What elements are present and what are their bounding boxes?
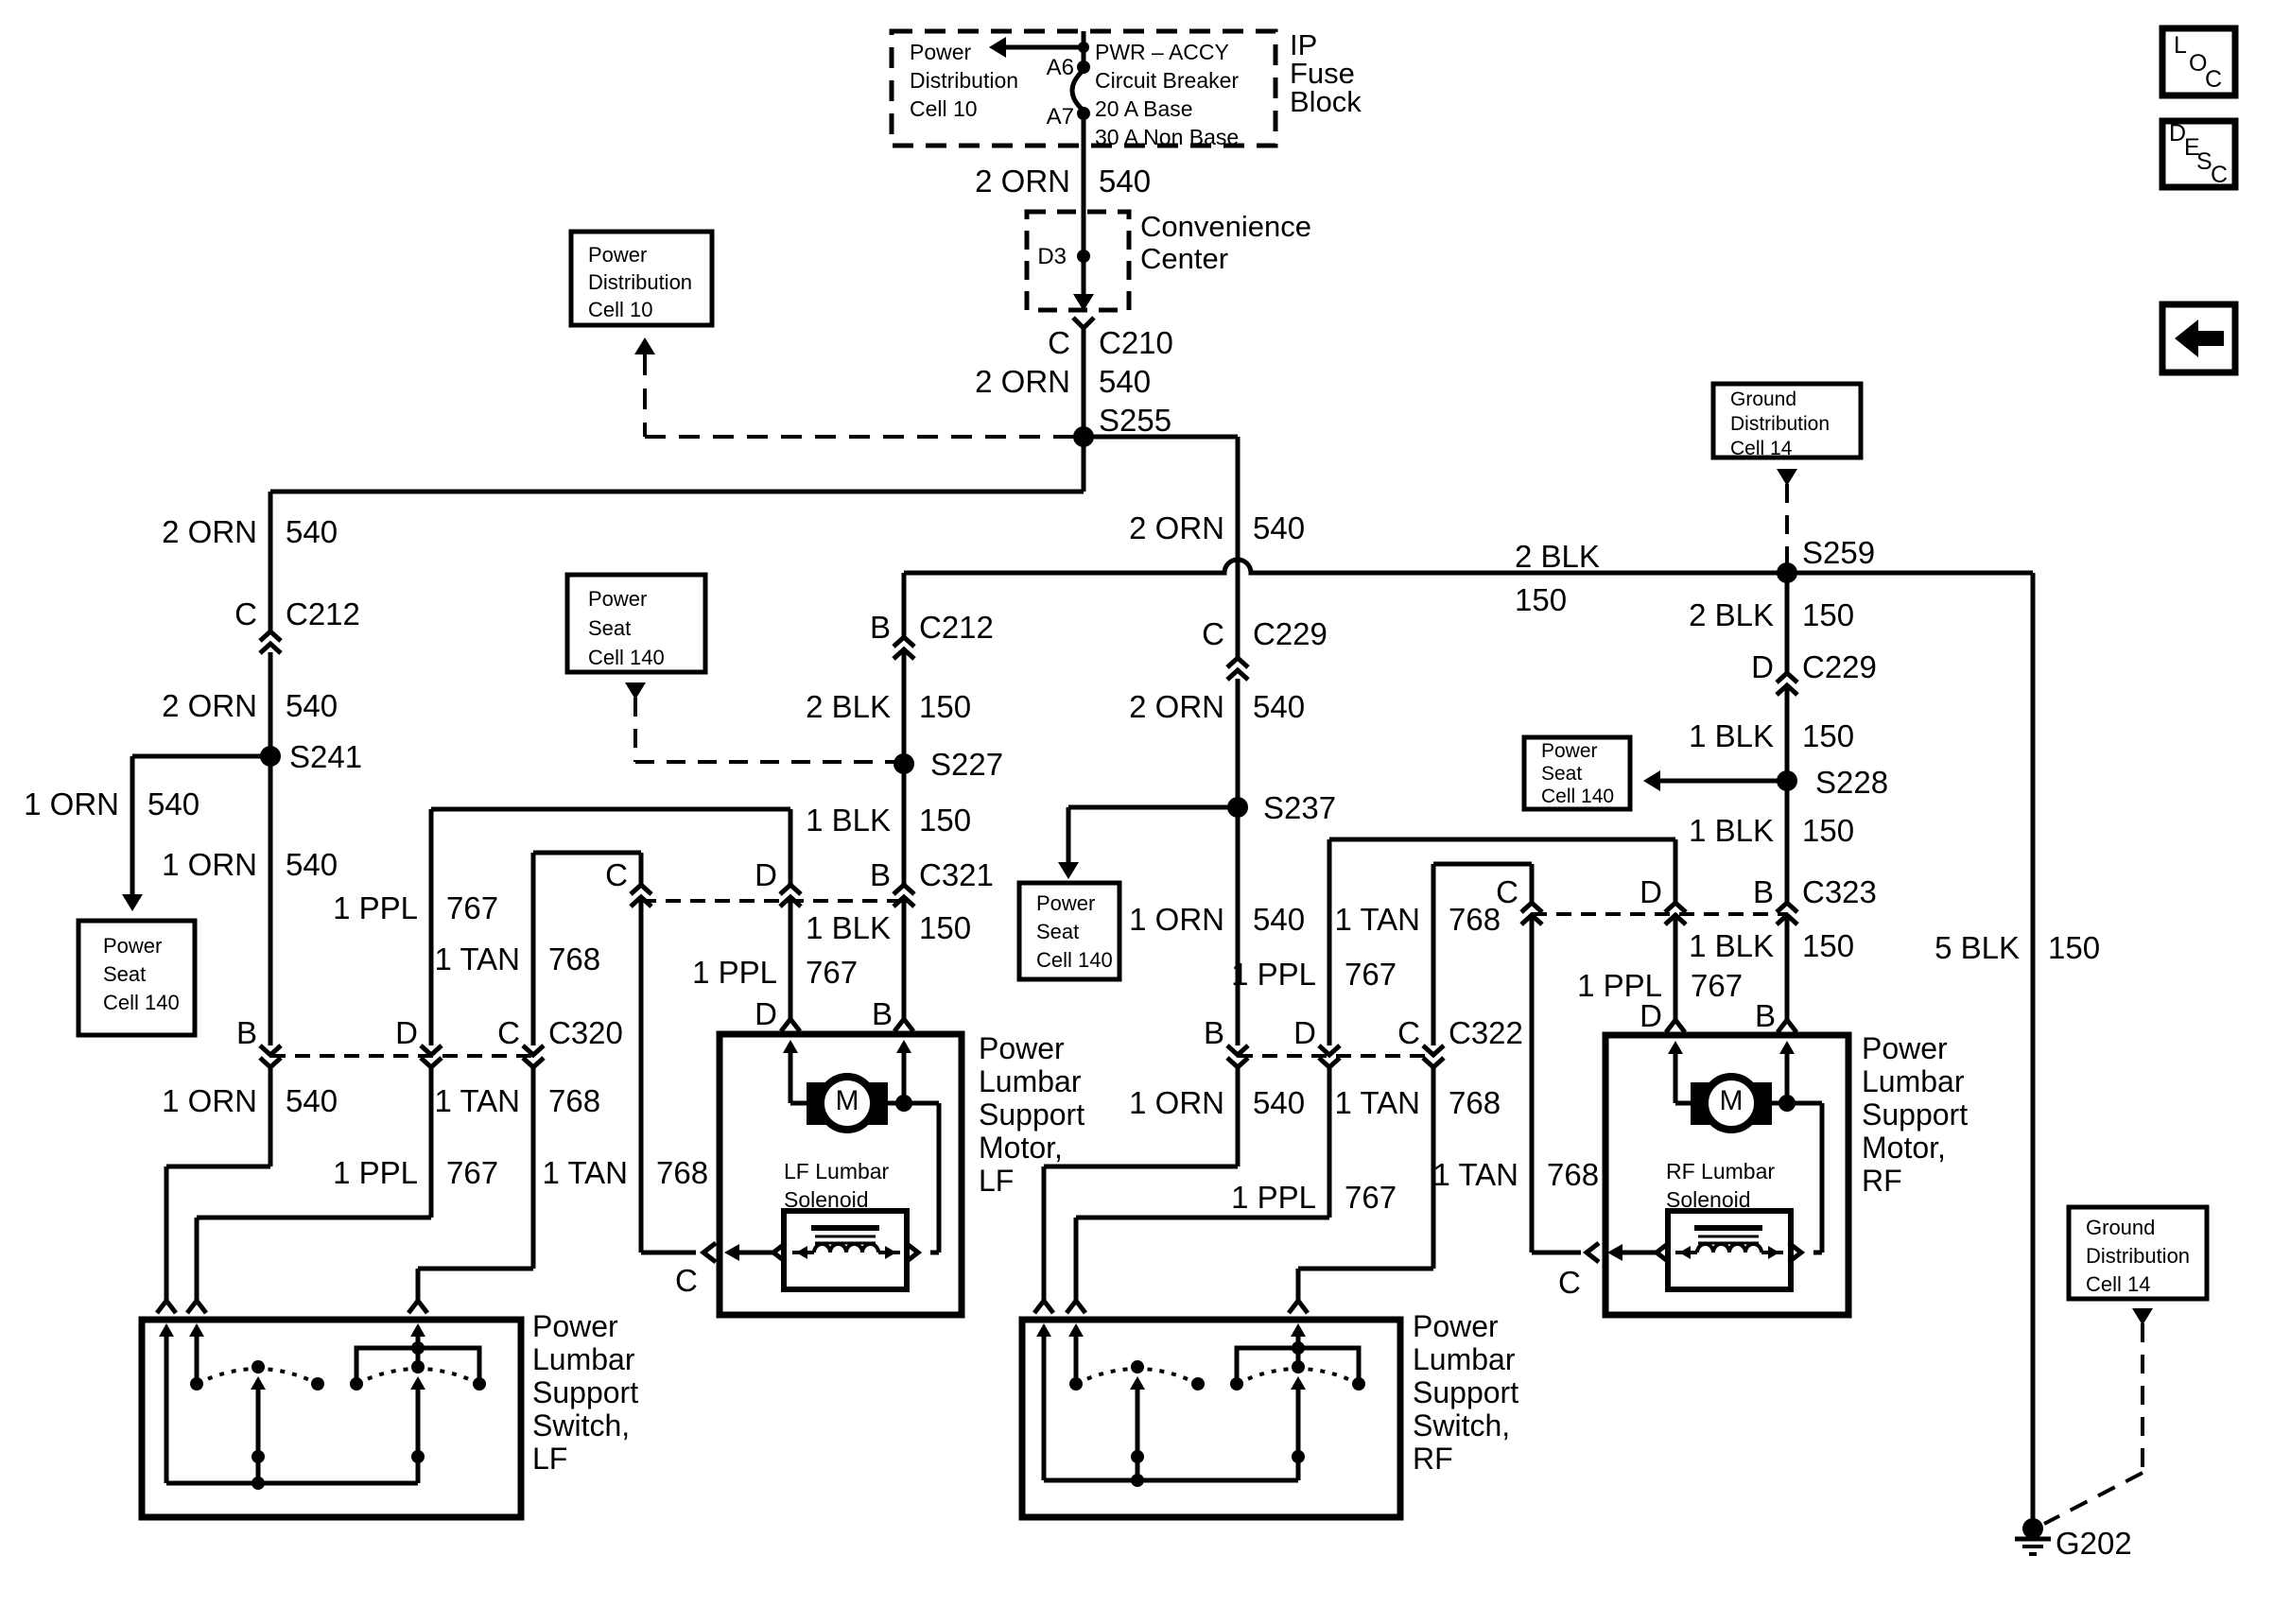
switch pin 1 internal	[159, 1323, 174, 1337]
svg-text:Lumbar: Lumbar	[979, 1064, 1082, 1098]
motor pin B fork	[894, 1019, 913, 1031]
svg-text:150: 150	[1515, 582, 1567, 617]
switch pin 2 internal	[189, 1323, 204, 1337]
connector C323 pin C	[1521, 903, 1542, 912]
svg-text:RF: RF	[1413, 1442, 1453, 1476]
splice S241	[260, 746, 281, 767]
svg-text:Cell 10: Cell 10	[588, 298, 652, 321]
wire 2 ORN 540 down to C229	[1236, 437, 1241, 658]
svg-text:Power: Power	[910, 40, 972, 64]
svg-text:540: 540	[1099, 164, 1151, 199]
svg-text:150: 150	[1802, 813, 1854, 848]
svg-text:Cell 14: Cell 14	[2086, 1272, 2150, 1296]
arrowhead left	[989, 37, 1006, 58]
svg-text:LF: LF	[979, 1164, 1014, 1198]
svg-text:1 ORN: 1 ORN	[24, 786, 119, 821]
svg-text:A7: A7	[1047, 104, 1074, 130]
svg-text:Power: Power	[588, 587, 647, 611]
svg-text:2 BLK: 2 BLK	[1689, 597, 1774, 632]
svg-text:PWR – ACCY: PWR – ACCY	[1095, 40, 1229, 64]
svg-text:Distribution: Distribution	[910, 68, 1018, 93]
wire S228 arrow to ref box	[1649, 779, 1783, 784]
wire 2 ORN 540 from breaker	[1082, 113, 1086, 212]
svg-text:D3: D3	[1037, 244, 1067, 269]
ground distribution cell 14 ref box (bottom)	[2069, 1207, 2207, 1299]
svg-text:C321: C321	[919, 857, 994, 892]
svg-text:B: B	[236, 1015, 257, 1050]
svg-text:Circuit Breaker: Circuit Breaker	[1095, 68, 1239, 93]
LOC icon	[2162, 28, 2235, 95]
wire 2 ORN down to C212	[269, 492, 273, 631]
switch pin 3 internal	[410, 1323, 425, 1337]
LF lumbar support motor box	[720, 1034, 962, 1315]
RF right wiper arrow	[1291, 1376, 1306, 1390]
wire S255 down	[1082, 437, 1086, 492]
connector C322 pin B	[1227, 1045, 1248, 1055]
svg-text:1 BLK: 1 BLK	[1689, 718, 1774, 753]
svg-text:B: B	[872, 996, 893, 1031]
wire jog left	[1044, 1165, 1238, 1169]
RF switch common rail	[1044, 1478, 1298, 1483]
svg-text:Cell 10: Cell 10	[910, 96, 978, 121]
arrowhead	[1058, 862, 1079, 879]
connector C229 (pin D)	[1777, 673, 1797, 682]
ground G202	[2022, 1518, 2043, 1539]
svg-text:2 BLK: 2 BLK	[806, 689, 891, 724]
rail junction	[252, 1477, 265, 1490]
motor M symbol LF	[807, 1082, 829, 1125]
svg-text:M: M	[1720, 1085, 1744, 1116]
dashed ref vertical	[633, 698, 637, 762]
svg-text:Cell 140: Cell 140	[588, 646, 665, 669]
svg-text:767: 767	[1345, 1180, 1397, 1215]
svg-text:G202: G202	[2056, 1526, 2132, 1561]
circuit breaker PWR-ACCY	[1072, 70, 1084, 111]
svg-text:Cell 140: Cell 140	[1541, 786, 1614, 807]
RF switch pin 1 fork	[1034, 1301, 1053, 1313]
wire 1 PPL below C322 D	[1327, 1066, 1332, 1218]
svg-text:C: C	[1048, 325, 1070, 360]
svg-text:Power: Power	[1036, 891, 1095, 915]
wire 2 ORN 540 to S255	[1082, 328, 1086, 437]
svg-text:Seat: Seat	[1541, 763, 1582, 785]
solenoid core	[1694, 1225, 1762, 1231]
ref arrow down	[2132, 1308, 2153, 1325]
svg-text:Block: Block	[1290, 85, 1362, 118]
RF motor B internal	[1779, 1041, 1795, 1054]
wire to RF solenoid pin C	[1532, 1251, 1581, 1255]
svg-text:Support: Support	[532, 1375, 638, 1409]
DESC icon	[2162, 121, 2235, 187]
svg-text:D: D	[395, 1015, 418, 1050]
tie bar	[1237, 1348, 1359, 1384]
wire 1 PPL to RF motor D	[1674, 915, 1678, 1020]
svg-text:D: D	[755, 857, 777, 892]
svg-text:1 ORN: 1 ORN	[162, 847, 257, 882]
connector C323 pin B	[1777, 903, 1797, 912]
wire to LF solenoid pin C	[641, 1251, 696, 1255]
wire breaker feed	[1082, 31, 1086, 67]
svg-text:767: 767	[446, 890, 498, 925]
ref arrow down (power seat)	[625, 682, 646, 700]
svg-text:Seat: Seat	[103, 962, 146, 986]
wire 1 PPL 767 to motor D	[789, 897, 793, 1019]
svg-text:768: 768	[548, 1083, 600, 1118]
svg-text:B: B	[1755, 998, 1776, 1033]
svg-text:540: 540	[286, 1083, 338, 1118]
RF solenoid right pin fork	[1789, 1243, 1801, 1262]
svg-text:1 TAN: 1 TAN	[1335, 902, 1420, 937]
LF lumbar support switch box	[142, 1320, 521, 1517]
RF switch pin 3 fork	[1289, 1301, 1308, 1313]
svg-text:768: 768	[1547, 1157, 1599, 1192]
splice S227	[894, 753, 914, 774]
wire 1 ORN below C322 B	[1236, 1066, 1241, 1166]
svg-text:Switch,: Switch,	[1413, 1408, 1510, 1443]
connector C229 (pin C)	[1227, 658, 1248, 667]
LF left wiper arrow	[251, 1376, 266, 1390]
svg-text:RF: RF	[1862, 1164, 1902, 1198]
svg-text:1 PPL: 1 PPL	[333, 1155, 418, 1190]
wire 1 PPL 767 below C320 D	[429, 1066, 434, 1218]
svg-text:B: B	[870, 610, 891, 645]
wire 1 TAN 768 below C320 C	[531, 1066, 536, 1269]
svg-text:D: D	[1640, 874, 1662, 909]
power seat cell 140 ref box (left)	[78, 921, 195, 1035]
LF switch left rocker contacts	[190, 1377, 203, 1391]
pin 2 internal	[1068, 1323, 1084, 1337]
svg-text:1 TAN: 1 TAN	[1433, 1157, 1518, 1192]
dashed ref to S255	[645, 435, 1074, 439]
svg-text:C: C	[1397, 1015, 1420, 1050]
connector C323 dashed line	[1532, 912, 1787, 916]
wire 1 ORN 540 arrow down	[130, 756, 135, 896]
svg-text:RF Lumbar: RF Lumbar	[1666, 1159, 1775, 1183]
svg-text:Lumbar: Lumbar	[1413, 1342, 1516, 1376]
dashed ref to S259	[1785, 484, 1789, 565]
svg-text:C320: C320	[548, 1015, 623, 1050]
svg-text:S227: S227	[930, 747, 1003, 782]
svg-text:C212: C212	[919, 610, 994, 645]
wire 2 ORN 540 to S237	[1236, 679, 1241, 807]
connector C321 pin B	[894, 885, 914, 894]
wiper pivot	[1131, 1450, 1144, 1463]
connector C321 pin D	[780, 885, 801, 894]
pin 1 internal	[1036, 1323, 1051, 1337]
splice S255	[1073, 426, 1094, 447]
svg-text:Seat: Seat	[1036, 920, 1079, 943]
svg-text:540: 540	[286, 688, 338, 723]
RF motor pin B fork	[1778, 1020, 1796, 1032]
wire 1 TAN 768 above C322 C	[1431, 864, 1436, 1045]
LF right wiper arrow	[410, 1376, 425, 1390]
svg-text:Cell 140: Cell 140	[1036, 948, 1113, 972]
svg-text:D: D	[755, 996, 777, 1031]
ref arrow down	[1777, 469, 1797, 486]
connector C320 pin C	[523, 1045, 544, 1055]
motor pin D fork	[781, 1019, 800, 1031]
wire 1 BLK 150 to C321 B	[902, 764, 907, 885]
wire 1 ORN 540 to C320 pin B	[269, 756, 273, 1045]
motor B internal	[896, 1040, 911, 1053]
svg-text:S237: S237	[1263, 790, 1336, 825]
svg-text:Support: Support	[1413, 1375, 1518, 1409]
connector C320 pin D	[421, 1045, 442, 1055]
svg-text:1 BLK: 1 BLK	[806, 910, 891, 945]
wire 2 ORN 540 to S241	[269, 652, 273, 756]
svg-text:767: 767	[1345, 957, 1397, 992]
connector C321 dashed line	[641, 899, 904, 903]
RF lumbar support motor box	[1605, 1035, 1848, 1315]
RF solenoid pin C fork	[1587, 1243, 1599, 1262]
wire 1 PPL 767 above C322 D	[1327, 839, 1332, 1045]
power seat cell 140 ref box (mid-left)	[567, 575, 705, 672]
svg-text:C: C	[2211, 162, 2228, 188]
wire 1 PPL 767 jog left	[197, 1216, 431, 1220]
solenoid right pin fork	[906, 1243, 918, 1262]
solenoid core	[811, 1225, 879, 1231]
svg-text:Switch,: Switch,	[532, 1408, 630, 1443]
svg-text:2 ORN: 2 ORN	[1129, 689, 1224, 724]
arrowhead to power seat ref	[122, 894, 143, 911]
svg-text:2 ORN: 2 ORN	[162, 688, 257, 723]
switch pin 3 fork	[408, 1301, 427, 1313]
svg-text:767: 767	[806, 955, 858, 990]
terminal D3	[1077, 250, 1090, 263]
connector C320 pin B	[260, 1045, 281, 1055]
ref arrow up	[634, 337, 655, 354]
svg-text:C: C	[2205, 66, 2222, 93]
RF lumbar support switch box	[1022, 1320, 1400, 1517]
svg-text:768: 768	[1449, 1085, 1501, 1120]
wire 1 BLK to S228	[1785, 686, 1790, 781]
svg-text:C229: C229	[1802, 649, 1877, 684]
svg-text:1 PPL: 1 PPL	[692, 955, 777, 990]
dashed ref to S227	[635, 760, 894, 764]
connector C212 (left)	[260, 631, 281, 641]
wire 1 TAN 768 above C320 C	[531, 853, 536, 1045]
svg-text:C212: C212	[286, 596, 360, 631]
junction at arrow	[1078, 42, 1089, 53]
pin 3 internal	[1291, 1323, 1306, 1337]
svg-text:Cell 14: Cell 14	[1730, 438, 1793, 459]
svg-text:Support: Support	[1862, 1097, 1968, 1132]
wire 1 PPL 767 above C320 D	[429, 809, 434, 1045]
terminal A7	[1077, 107, 1090, 120]
RF switch pin 2 fork	[1067, 1301, 1085, 1313]
svg-text:1 TAN: 1 TAN	[435, 1083, 520, 1118]
wire S237 branch left	[1068, 805, 1238, 810]
wire 2 BLK 150 ground bus with hop	[904, 560, 2033, 573]
svg-text:S241: S241	[289, 739, 362, 774]
svg-text:1 TAN: 1 TAN	[1335, 1085, 1420, 1120]
wire to power distribution arrow	[1006, 45, 1084, 50]
wire 1 TAN 768 down to RF solenoid	[1530, 915, 1535, 1253]
svg-text:Seat: Seat	[588, 616, 631, 640]
svg-text:150: 150	[2048, 930, 2100, 965]
svg-text:540: 540	[286, 847, 338, 882]
svg-text:768: 768	[548, 942, 600, 976]
svg-text:Power: Power	[1862, 1031, 1948, 1065]
connector C321 pin C	[631, 885, 651, 894]
svg-text:1 ORN: 1 ORN	[1129, 902, 1224, 937]
RF left wiper arrow	[1130, 1376, 1145, 1390]
svg-text:2 ORN: 2 ORN	[975, 364, 1070, 399]
svg-text:Power: Power	[1413, 1309, 1499, 1343]
wire 1 TAN across top	[1433, 862, 1532, 867]
svg-text:1 PPL: 1 PPL	[1231, 957, 1316, 992]
wire 1 TAN 768 across top	[533, 851, 641, 855]
svg-text:Distribution: Distribution	[1730, 413, 1830, 435]
wire 1 TAN below C322 C	[1431, 1066, 1436, 1269]
back-arrow icon	[2162, 304, 2235, 372]
svg-text:1 ORN: 1 ORN	[1129, 1085, 1224, 1120]
svg-text:Cell 140: Cell 140	[103, 991, 180, 1014]
convenience center dashed box	[1027, 212, 1129, 310]
svg-text:767: 767	[1691, 968, 1743, 1003]
svg-text:Distribution: Distribution	[588, 270, 692, 294]
svg-text:C: C	[234, 596, 257, 631]
svg-text:D: D	[1640, 998, 1662, 1033]
wire 1 TAN 768 down to solenoid	[639, 897, 644, 1253]
svg-text:2 BLK: 2 BLK	[1515, 539, 1600, 574]
wire 1 BLK to motor B	[902, 897, 907, 1019]
wire 2 BLK below S259	[1785, 573, 1790, 673]
RF switch left rocker contacts	[1069, 1377, 1083, 1391]
arrowhead left	[1643, 770, 1660, 791]
solenoid pin C fork	[703, 1243, 716, 1262]
connector C320 dashed line	[270, 1054, 533, 1058]
wiper pivot	[411, 1450, 425, 1463]
wire 1 PPL 767 across	[431, 807, 790, 812]
svg-text:S228: S228	[1815, 765, 1888, 800]
svg-text:Motor,: Motor,	[979, 1131, 1063, 1165]
wire 1 ORN jog left	[166, 1165, 270, 1169]
svg-text:C322: C322	[1449, 1015, 1523, 1050]
svg-text:2 ORN: 2 ORN	[162, 514, 257, 549]
wire bus corner down to C212 B	[902, 573, 907, 637]
wire 1 TAN 768 down to C321 C	[639, 853, 644, 885]
wiper pivot	[252, 1450, 265, 1463]
svg-text:150: 150	[919, 689, 971, 724]
svg-text:540: 540	[286, 514, 338, 549]
RF motor pin D fork	[1666, 1020, 1685, 1032]
wire 1 BLK to C323 B	[1785, 781, 1790, 903]
svg-text:Motor,: Motor,	[1862, 1131, 1946, 1165]
svg-text:M: M	[836, 1085, 859, 1116]
svg-text:540: 540	[1099, 364, 1151, 399]
svg-text:C323: C323	[1802, 874, 1877, 909]
svg-text:S259: S259	[1802, 535, 1875, 570]
power seat cell 140 ref box (mid)	[1019, 883, 1119, 979]
wire 1 PPL jog left (RF)	[1076, 1216, 1329, 1220]
svg-text:20 A Base: 20 A Base	[1095, 96, 1193, 121]
svg-text:C: C	[497, 1015, 520, 1050]
svg-text:540: 540	[1253, 510, 1305, 545]
wire 1 ORN to switch pin	[165, 1166, 169, 1301]
power distribution cell 10 ref box	[571, 232, 712, 325]
dashed ref vertical	[2141, 1323, 2144, 1473]
wire 5 BLK 150 to G202	[2031, 573, 2036, 1529]
svg-text:1 BLK: 1 BLK	[806, 803, 891, 838]
connector C212 (pin B)	[894, 637, 914, 647]
svg-text:1 BLK: 1 BLK	[1689, 928, 1774, 963]
power seat cell 140 ref box (right)	[1524, 737, 1630, 809]
svg-text:150: 150	[1802, 597, 1854, 632]
wire 1 ORN below C320 B	[269, 1066, 273, 1166]
svg-text:LF: LF	[532, 1442, 567, 1476]
splice S259	[1777, 562, 1797, 583]
svg-text:B: B	[1753, 874, 1774, 909]
wiper pivot	[1292, 1450, 1305, 1463]
svg-text:768: 768	[1449, 902, 1501, 937]
dashed ref vertical	[643, 354, 647, 437]
svg-text:C: C	[605, 857, 628, 892]
svg-text:Power: Power	[588, 243, 647, 267]
svg-text:D: D	[1293, 1015, 1316, 1050]
wire to RF switch pin	[1296, 1269, 1301, 1301]
splice S237	[1227, 797, 1248, 818]
svg-text:C: C	[1202, 616, 1224, 651]
svg-text:B: B	[870, 857, 891, 892]
svg-text:L: L	[2174, 32, 2187, 59]
junction motor B	[895, 1095, 912, 1112]
svg-text:1 TAN: 1 TAN	[435, 942, 520, 976]
svg-text:S255: S255	[1099, 403, 1171, 438]
wire S255 to right branch	[1084, 435, 1238, 440]
rail junction	[1131, 1474, 1144, 1487]
wire through convenience center	[1082, 212, 1086, 295]
svg-text:5 BLK: 5 BLK	[1935, 930, 2020, 965]
svg-text:540: 540	[147, 786, 200, 821]
wire arrow down to power seat ref	[1067, 807, 1071, 864]
junction RF motor B	[1778, 1095, 1796, 1112]
connector C322 pin D	[1319, 1045, 1340, 1055]
svg-text:540: 540	[1253, 902, 1305, 937]
wire 1 TAN 768 jog left	[418, 1267, 533, 1271]
wire 2 BLK 150 to S227	[902, 651, 907, 764]
svg-text:540: 540	[1253, 689, 1305, 724]
svg-text:A6: A6	[1047, 55, 1074, 80]
svg-text:Ground: Ground	[2086, 1216, 2155, 1239]
svg-text:Support: Support	[979, 1097, 1084, 1132]
solenoid lead left	[724, 1244, 739, 1261]
RF motor D internal	[1668, 1041, 1683, 1054]
wire 1 TAN 768 to switch pin	[416, 1269, 421, 1301]
switch common rail	[166, 1481, 418, 1486]
wire 1 PPL 767 across	[1329, 838, 1675, 842]
svg-text:150: 150	[919, 910, 971, 945]
wire 1 ORN 540 to C322 B	[1236, 807, 1241, 1045]
svg-text:30 A Non Base: 30 A Non Base	[1095, 125, 1239, 149]
connector C210	[1073, 318, 1094, 328]
IP fuse block dashed box	[892, 31, 1275, 146]
connector C322 dashed line	[1238, 1054, 1433, 1058]
wire S241 branch left	[132, 754, 270, 759]
motor D internal	[783, 1040, 798, 1053]
svg-text:1 PPL: 1 PPL	[1231, 1180, 1316, 1215]
svg-text:Power: Power	[1541, 740, 1598, 762]
arrowhead into C210	[1073, 294, 1094, 311]
svg-text:2 ORN: 2 ORN	[975, 164, 1070, 199]
ground distribution cell 14 ref box (top)	[1713, 384, 1861, 458]
svg-text:540: 540	[1253, 1085, 1305, 1120]
wire jog left	[1298, 1267, 1433, 1271]
svg-text:767: 767	[446, 1155, 498, 1190]
svg-text:C: C	[1496, 874, 1518, 909]
svg-text:Power: Power	[979, 1031, 1065, 1065]
svg-text:Power: Power	[103, 934, 162, 958]
